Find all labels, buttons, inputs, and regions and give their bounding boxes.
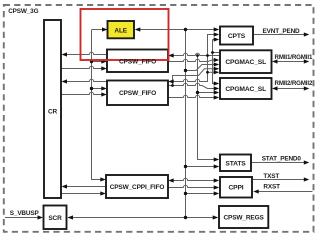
junction V1 top — [184, 28, 187, 31]
wire: STAT_PEND0 output — [251, 162, 308, 164]
junction W1-feeder207 — [206, 54, 209, 57]
arrow into CPTS in1 — [214, 27, 220, 31]
svg-text:ALE: ALE — [114, 27, 127, 34]
wire V1: vertical bus — [185, 30, 187, 218]
arrow into CPGMAC_SL1 in3 — [214, 67, 220, 71]
arrow into SCR left — [38, 215, 44, 219]
junction V1-STATS — [184, 165, 187, 168]
red highlight rectangle around ALE — [81, 9, 169, 60]
wire: V1 tap to STATS — [186, 166, 219, 168]
arrow into CPPI in1 — [214, 178, 220, 182]
svg-text:CPSW_FIFO: CPSW_FIFO — [119, 58, 156, 65]
wire: CR out to CPSW_FIFO2 — [62, 92, 105, 94]
arrow into CPSW_CPPI_FIFO in2 — [100, 191, 106, 195]
block CPSW_REGS — [219, 206, 268, 228]
svg-text:RMII2/RGMII2: RMII2/RGMII2 — [275, 80, 313, 87]
wire: CPSW_CPPI_FIFO out to CPPI — [168, 185, 218, 187]
arrow into STATS in1 — [214, 157, 220, 161]
svg-text:CPSW_FIFO: CPSW_FIFO — [119, 90, 156, 97]
wire X3: V2 tap to CPGMAC_SL2 — [198, 92, 219, 94]
junction W1-V2 — [196, 54, 199, 57]
arrow RMII1 to border — [304, 59, 310, 63]
svg-text:STATS: STATS — [225, 161, 246, 168]
wire: RMII1/RGMII1 line — [274, 61, 308, 63]
wire: CPSW_CPPI_FIFO-CPPI link — [170, 178, 219, 180]
arrow into CR in3 — [62, 184, 68, 188]
svg-text:STAT_PEND0: STAT_PEND0 — [262, 156, 302, 163]
wire A: bus feeding ALE and FIFOs from CR column — [92, 30, 107, 180]
arrow into CPTS in3 — [214, 37, 220, 41]
arrow into CPSW_CPPI_FIFO right — [168, 178, 174, 182]
arrow into CR in2 — [62, 79, 68, 83]
wire W4: riser to CPGMAC_SL1 — [173, 69, 219, 86]
wire: CR out to CPSW_FIFO1 — [62, 66, 105, 68]
arrow into STATS in2 — [214, 164, 220, 168]
svg-text:CPTS: CPTS — [228, 33, 246, 40]
svg-text:TXST: TXST — [263, 173, 279, 180]
block CPGMAC_SL 2 — [220, 78, 272, 99]
wire: EVNT_PEND output — [253, 34, 308, 36]
junction feeder212 — [211, 51, 214, 54]
wire X1: feeder207 down to CPSW_FIFO2 right — [170, 56, 208, 82]
svg-text:CPSW_CPPI_FIFO: CPSW_CPPI_FIFO — [110, 184, 165, 191]
block CPSW_FIFO 1 — [107, 50, 168, 73]
arrow STAT_PEND0 — [304, 160, 310, 164]
junction X2-W4riser — [171, 84, 174, 87]
arrow into CPGMAC_SL2 in4 — [214, 95, 220, 99]
svg-text:CPGMAC_SL: CPGMAC_SL — [225, 59, 266, 66]
svg-text:RXST: RXST — [263, 183, 280, 190]
wire V2: vertical to STATS — [198, 56, 219, 160]
wire X4: CPSW_FIFO2 out2 to CPGMAC_SL2 — [168, 95, 218, 97]
svg-text:RMII1/RGMII1: RMII1/RGMII1 — [275, 54, 313, 61]
arrow into CPSW_FIFO1 in1 — [101, 59, 107, 63]
block STATS — [220, 155, 251, 172]
arrow into ALE right — [135, 27, 141, 31]
arrow into CPGMAC_SL1 in4 — [214, 70, 220, 74]
arrow into CPPI in2 — [214, 185, 220, 189]
wire W5: feeder207 tap to CPGMAC_SL1 — [208, 71, 219, 73]
arrow EVNT_PEND — [304, 32, 310, 36]
wire: CPTS in3 hook / CPGMAC_SL2 in1 feeder — [213, 40, 221, 84]
arrow into CPPI in3 — [214, 191, 220, 195]
arrow into CPSW_REGS left — [213, 215, 219, 219]
junction V2-CPGMAC2 — [196, 91, 199, 94]
arrow into CPTS in2 — [214, 32, 220, 36]
arrow into CPSW_FIFO2 in3 — [101, 92, 107, 96]
junction A-FIFO2 — [90, 87, 93, 90]
block CPSW_FIFO 2 — [107, 81, 168, 106]
wire: CPSW_FIFO2 out to CR — [64, 79, 108, 81]
wire: TXST output — [252, 179, 308, 181]
arrow into CPSW_CPPI_FIFO in1 — [100, 177, 106, 181]
arrow RMII1 into CPGMAC_SL1 — [272, 59, 278, 63]
arrow into CPSW_FIFO2 right — [168, 79, 174, 83]
junction A-FIFO1 — [90, 60, 93, 63]
arrow into SCR right — [68, 215, 74, 219]
wire: CR out to CPSW_CPPI_FIFO — [62, 193, 104, 195]
arrow TXST — [304, 177, 310, 181]
block CPSW_CPPI_FIFO — [106, 175, 168, 198]
arrow into CPGMAC_SL1 in2 — [214, 62, 220, 66]
arrow into CPGMAC_SL1 in1 — [214, 58, 220, 62]
block CPGMAC_SL 1 — [220, 50, 272, 73]
wire: CPSW_CPPI_FIFO out to CR — [64, 186, 107, 188]
svg-text:CPSW_REGS: CPSW_REGS — [224, 214, 265, 221]
svg-text:EVNT_PEND: EVNT_PEND — [263, 28, 301, 35]
arrow into CR in1 — [62, 52, 68, 56]
block CR — [44, 20, 61, 198]
arrow into CPGMAC_SL2 in3 — [214, 90, 220, 94]
svg-text:CPGMAC_SL: CPGMAC_SL — [225, 86, 266, 93]
junction V1-CPPI — [184, 192, 187, 195]
svg-text:SCR: SCR — [48, 215, 62, 222]
arrow into CPSW_FIFO1 in2 — [101, 66, 107, 70]
wire: RXST input — [255, 191, 313, 193]
svg-text:CR: CR — [48, 109, 58, 116]
wire: S_VBUSP input — [5, 217, 42, 219]
svg-text:CPSW_3G: CPSW_3G — [8, 8, 38, 15]
junction V1-REGS line — [184, 216, 187, 219]
arrow into ALE left — [102, 27, 108, 31]
svg-text:CPPI: CPPI — [228, 185, 243, 192]
block CPPI — [220, 177, 252, 198]
arrow RMII2 to border — [304, 86, 310, 90]
wire: CPSW_FIFO1 out to CR — [64, 52, 108, 54]
wire W3: V1 tap to CPGMAC_SL1 — [186, 65, 219, 71]
wire: A tap to CPSW_FIFO1 — [92, 61, 105, 63]
arrow into CPSW_FIFO2 in1 — [101, 86, 107, 90]
junction feeder207-W5 — [206, 71, 209, 74]
wire X2: CPSW_FIFO2 out to CPGMAC_SL2 — [168, 83, 218, 88]
arrow into CPGMAC_SL2 in2 — [214, 86, 220, 90]
wire: A tap to CPSW_FIFO2 — [92, 88, 105, 90]
wire W1: CPSW_FIFO1 right to CPTS/CPGMAC_SL1 — [170, 35, 221, 56]
arrow RXST into CPPI — [253, 189, 259, 193]
arrow RMII2 into CPGMAC_SL2 — [272, 86, 278, 90]
junction V1-CPGMAC1 — [184, 69, 187, 72]
arrow into CPGMAC_SL2 in1 — [214, 81, 220, 85]
wire W2: CPSW_FIFO1 out to CPGMAC_SL1 — [168, 59, 218, 61]
wire: RMII2/RGMII2 line — [274, 88, 308, 90]
block SCR — [44, 206, 67, 230]
wire: ALE-CPTS link — [136, 29, 218, 31]
wire: SCR-CPSW_REGS link — [68, 217, 217, 219]
svg-text:S_VBUSP: S_VBUSP — [10, 210, 40, 217]
block ALE (yellow highlight) — [108, 21, 135, 38]
block CPTS — [220, 27, 253, 45]
arrow into CPSW_FIFO1 right — [168, 53, 174, 57]
wire: V1 tap to CPPI — [186, 193, 219, 195]
